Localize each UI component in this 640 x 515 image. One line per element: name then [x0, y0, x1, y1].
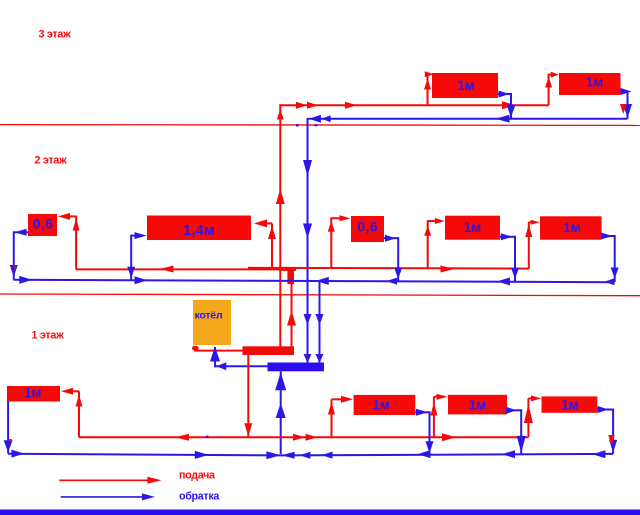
- svg-text:0,6: 0,6: [358, 219, 379, 234]
- down arrow on 3F-B return drop: [623, 104, 632, 118]
- up arrow on 2F-2 riser: [268, 226, 276, 239]
- return connection 3F-A (blue): [498, 93, 511, 119]
- legend label подача: [179, 470, 216, 482]
- up arrow on 1F-L riser: [76, 395, 83, 407]
- label 0,6 radiator 2F-3: [358, 219, 379, 234]
- right arrow on 1st floor return main into riser: [266, 451, 280, 459]
- down arrow on 2F-4 return drop: [511, 268, 519, 279]
- left arrow on 3rd floor return main: [496, 115, 510, 123]
- return connection 2F-5 (blue): [602, 235, 615, 282]
- down arrow on 2F-2 return drop: [127, 267, 135, 278]
- third left arrow on 1st floor return main: [322, 452, 333, 459]
- label 1м radiator 1F-1: [372, 398, 390, 413]
- floor separator line between 3rd and 2nd floor: [0, 124, 640, 127]
- right arrow on 2nd floor return main far left: [19, 276, 32, 284]
- return connection 2F-3 (blue): [384, 237, 398, 281]
- up arrow on 1F-3 riser: [524, 404, 533, 423]
- down arrow on riser B2 at manifold: [316, 354, 324, 363]
- left arrow into radiator 2F-1: [58, 213, 70, 220]
- radiator 2F-2 (1,4м): [147, 216, 251, 241]
- return connection 2F-1 (blue): [14, 231, 28, 279]
- radiator 2F-1 (0,6): [28, 214, 57, 236]
- down arrow on 1F-3 return drop: [609, 440, 617, 453]
- stray red down arrow at 1F-3 drop: [608, 435, 615, 446]
- return drop 1F-L (blue): [7, 401, 9, 454]
- legend label обратка: [179, 490, 220, 502]
- tiny blue dot on separator 1: [296, 124, 299, 127]
- svg-text:2 этаж: 2 этаж: [35, 154, 68, 166]
- radiator 1F-L (1м): [7, 386, 60, 402]
- tiny blue dot on 1st floor supply main: [206, 436, 209, 439]
- down arrow on riser B1 middle: [303, 224, 312, 239]
- 2nd floor return main (blue): [14, 280, 615, 282]
- left arrow on 1st floor supply main: [175, 434, 189, 441]
- right arrow on 1st floor supply main: [442, 433, 456, 441]
- return connection 2F-2 (blue): [131, 235, 140, 281]
- return connection 3F-B (blue): [621, 91, 628, 119]
- svg-text:подача: подача: [179, 470, 216, 482]
- 1st floor supply main (red): [79, 436, 529, 438]
- radiator riser 2F-4 (red): [428, 221, 436, 270]
- down arrow on 1F-1 return drop: [426, 441, 434, 453]
- supply drop pipe to 1st floor (red): [247, 355, 249, 437]
- 3rd floor return main (blue): [308, 118, 628, 120]
- label 1м radiator 2F-5: [563, 220, 581, 235]
- svg-text:1м: 1м: [469, 397, 487, 412]
- svg-text:3 этаж: 3 этаж: [39, 29, 72, 41]
- stray red down arrow at right end of 3rd floor: [620, 104, 627, 114]
- radiator 2F-3 (0,6): [351, 216, 384, 242]
- return rise pipe from 1st floor (blue): [280, 371, 282, 454]
- radiator riser 1F-3 (red): [528, 398, 534, 437]
- svg-text:1,4м: 1,4м: [183, 222, 215, 239]
- red dot at boiler bottom left: [192, 346, 199, 351]
- right arrow into radiator 2F-5: [531, 220, 540, 225]
- radiator 1F-3 (1м): [542, 396, 598, 412]
- up arrow on 2F-3 riser: [328, 221, 335, 232]
- svg-text:0,6: 0,6: [33, 216, 54, 231]
- radiator riser 1F-2 (red): [434, 397, 440, 438]
- right arrow on 1st floor return main far left: [11, 450, 24, 458]
- 2nd floor supply main right portion (red): [248, 267, 529, 270]
- up arrow on 3F-B riser: [545, 77, 552, 88]
- left arrow on 1st floor return main right of riser: [282, 452, 295, 459]
- down arrow on 3F-A return drop: [507, 105, 516, 118]
- up arrow on 2F-4 riser: [424, 226, 431, 236]
- svg-text:котёл: котёл: [195, 309, 223, 321]
- svg-text:1м: 1м: [561, 398, 579, 413]
- label 0,6 radiator 2F-1: [33, 216, 54, 231]
- left arrow on 1st floor return main: [299, 452, 310, 459]
- up arrow on 2F-1 riser: [73, 219, 80, 231]
- label 1м radiator 1F-2: [469, 397, 487, 412]
- right arrow out of radiator 3F-B: [621, 88, 632, 95]
- label 1 этаж: [32, 329, 65, 341]
- svg-text:1м: 1м: [372, 398, 390, 413]
- label 1,4м radiator 2F-2: [183, 222, 215, 239]
- radiator riser 2F-5 (red): [529, 222, 533, 269]
- radiator 3F-B: [559, 73, 621, 95]
- down arrow on 2F-1 return drop: [10, 265, 18, 277]
- floor separator line between 2nd and 1st floor: [0, 294, 640, 296]
- label 2 этаж: [35, 154, 68, 166]
- left arrow on 2nd floor return main near riser: [316, 277, 329, 285]
- supply riser R2 (red, boiler manifold to 2nd floor tee): [291, 270, 293, 347]
- radiator riser 2F-1 (red): [69, 216, 76, 269]
- svg-text:1м: 1м: [24, 386, 42, 401]
- up arrow on 1F-1 riser: [328, 402, 335, 415]
- label 1м radiator 1F-L: [24, 386, 42, 401]
- return riser B1 (blue, 3rd floor to blue manifold): [307, 118, 309, 363]
- down arrow on riser B1 upper: [303, 160, 312, 176]
- up arrow on 2F-5 riser: [525, 224, 532, 237]
- radiator riser 3F-B (red): [548, 75, 553, 106]
- left arrow on 1st floor return main at 1F-2 drop: [502, 450, 515, 458]
- down arrow on riser B1 between mains: [304, 314, 312, 325]
- radiator 3F-A: [432, 73, 498, 98]
- boiler (котёл): [193, 300, 231, 345]
- return connection 2F-4 (blue): [500, 236, 515, 282]
- right arrow on 2nd floor return main: [135, 276, 148, 284]
- left arrow into radiator 2F-2: [254, 219, 267, 227]
- return riser B2 (blue, 2nd floor return to blue manifold): [319, 281, 321, 363]
- right arrow out of radiator 1F-1: [416, 409, 428, 416]
- label 1м radiator 1F-3: [561, 398, 579, 413]
- right arrow on 3rd floor supply main: [345, 102, 357, 109]
- left arrow on 2nd floor return main far right: [604, 278, 614, 285]
- right arrow into radiator 1F-2: [437, 394, 448, 400]
- down arrow on 1F-L return drop: [4, 440, 13, 452]
- label 1м radiator 3F-B: [586, 74, 604, 89]
- label 1м radiator 3F-A: [457, 78, 475, 93]
- right arrow out of radiator 1F-2: [506, 407, 517, 414]
- supply riser R1 (red, boiler manifold to 3rd floor): [279, 104, 281, 346]
- label 3 этаж: [39, 29, 72, 41]
- down arrow on riser B2 upper: [316, 314, 324, 325]
- svg-text:1м: 1м: [563, 220, 581, 235]
- small red fleck at 1F-L drop: [9, 439, 12, 443]
- right arrow into radiator 2F-3: [340, 215, 351, 221]
- tiny blue dash on separator 1: [315, 124, 318, 126]
- right arrow pair on 1st floor supply main: [293, 434, 318, 441]
- up arrow on riser R2: [287, 311, 296, 326]
- down arrow on supply drop: [244, 423, 252, 436]
- svg-text:1м: 1м: [457, 78, 475, 93]
- up arrow on return rise into manifold: [275, 372, 286, 390]
- blue return manifold bar: [268, 363, 325, 372]
- right arrow out of radiator 1F-3: [598, 406, 609, 413]
- radiator riser 1F-1 (red): [332, 399, 343, 437]
- red supply manifold bar: [243, 346, 295, 355]
- svg-text:1м: 1м: [464, 220, 482, 235]
- right arrow pair on 3rd floor supply main: [296, 102, 318, 109]
- boiler supply pipe to red manifold: [194, 350, 246, 352]
- right arrow out of radiator 3F-A: [499, 91, 510, 98]
- right arrow on 1st floor return main: [195, 451, 209, 459]
- radiator riser 2F-2 (red): [266, 223, 272, 269]
- return pipe from blue manifold to boiler (blue): [215, 347, 268, 367]
- tee junction thick red blob on 2nd floor supply main: [279, 267, 296, 284]
- left arrow on 2nd floor return main at 0,6 drop: [386, 278, 397, 285]
- right arrow on 3rd floor supply main near radiator A drop: [502, 101, 516, 109]
- return connection 1F-2 (blue): [507, 409, 521, 454]
- radiator riser 3F-A (red): [427, 74, 431, 105]
- svg-text:1 этаж: 1 этаж: [32, 329, 65, 341]
- radiator riser 2F-3 (red): [331, 217, 340, 269]
- up arrow on return rise: [276, 403, 286, 418]
- radiator 1F-2 (1м): [448, 395, 507, 415]
- right arrow into radiator 3F-B: [551, 72, 559, 78]
- down arrow on 2F-3 return drop: [394, 268, 402, 279]
- down arrow on 1F-2 return drop: [517, 436, 526, 453]
- radiator 2F-5 (1м): [540, 216, 602, 239]
- right arrow into radiator 1F-1: [341, 396, 353, 403]
- left arrow on boiler return pipe: [216, 362, 226, 370]
- left arrow pair on 3rd floor return main: [309, 115, 331, 123]
- up arrow on riser R1 below 3rd floor main: [277, 110, 284, 120]
- left arrow on 2nd floor return main at 1м drop: [497, 277, 510, 285]
- 2nd floor supply main left portion (red): [76, 268, 281, 270]
- right arrow out of radiator 2F-5: [601, 233, 613, 240]
- left arrow on 1st floor return main far right: [592, 450, 605, 458]
- bottom blue bar: [0, 510, 640, 515]
- return connection 1F-1 (blue): [415, 411, 429, 454]
- radiator 2F-4 (1м): [445, 216, 500, 240]
- down arrow on riser B1 at manifold: [304, 354, 312, 363]
- 3rd floor supply main (red): [279, 104, 548, 106]
- left arrow out of radiator 2F-1: [15, 229, 27, 236]
- left arrow on 2nd floor supply main: [160, 266, 174, 273]
- right arrow out of radiator 2F-4: [501, 233, 513, 240]
- label 1м radiator 2F-4: [464, 220, 482, 235]
- 1st floor return main (blue): [8, 454, 613, 456]
- svg-text:обратка: обратка: [179, 490, 220, 502]
- right arrow into radiator 2F-4: [435, 218, 445, 224]
- up arrow on riser R1 between floors: [276, 189, 285, 204]
- supply connection 1F-L (red): [73, 391, 79, 437]
- label котёл: [195, 309, 223, 321]
- right arrow on 2nd floor supply main: [441, 266, 455, 273]
- right arrow out of radiator 2F-3: [385, 235, 396, 242]
- right arrow into radiator 3F-A: [425, 71, 434, 77]
- right arrow into radiator 2F-2 left edge: [135, 232, 147, 239]
- radiator 1F-1 (1м): [354, 395, 416, 415]
- legend supply arrow (red): [59, 477, 161, 484]
- left arrow on 1st floor return main at 1F-1 drop: [418, 450, 431, 458]
- down arrow on 2F-5 return drop: [611, 268, 619, 279]
- up arrow on 1F-2 riser: [430, 403, 437, 416]
- up arrow on 3F-A riser: [424, 79, 431, 90]
- return connection 1F-3 (blue): [597, 409, 613, 454]
- svg-text:1м: 1м: [586, 74, 604, 89]
- up arrow into boiler bottom: [210, 347, 220, 362]
- small red fleck at 2F-1 drop: [14, 266, 17, 270]
- right arrow into radiator 1F-3: [531, 395, 541, 401]
- legend return arrow (blue): [61, 493, 155, 500]
- left arrow into radiator 1F-L: [61, 388, 73, 395]
